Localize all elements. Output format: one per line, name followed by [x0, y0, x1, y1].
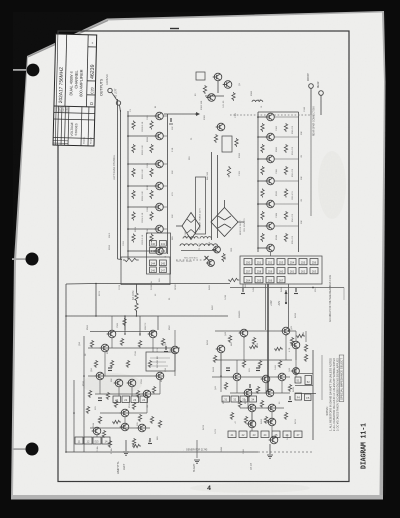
ground right amp	[267, 455, 273, 458]
wire CR2 left	[176, 225, 182, 227]
wire stage cross R6	[275, 225, 299, 227]
wire lamp h2	[88, 375, 164, 377]
node ladder-R 6	[257, 225, 259, 227]
bias box BR0	[222, 396, 230, 402]
title block cell line num	[87, 80, 95, 82]
resistor R63	[161, 338, 164, 346]
transistor Q32	[247, 420, 256, 428]
node bus right	[312, 287, 314, 289]
wire stage cross L2	[164, 135, 168, 137]
node ladder-L 5	[127, 206, 129, 208]
resistor R41	[228, 278, 239, 281]
transistor Q35	[107, 330, 116, 338]
terminal box TR14	[288, 268, 296, 274]
resistor R15	[150, 212, 153, 221]
transformer T1 winding 2	[183, 237, 198, 239]
junction dots extra	[267, 330, 269, 332]
wire bus drop x125	[124, 316, 126, 330]
transistor Q23	[291, 341, 300, 349]
wire right cluster mesh 4	[271, 412, 273, 422]
resistor R49	[224, 382, 227, 390]
wire terminal stub B	[120, 105, 121, 112]
node ladder-R 1	[257, 116, 259, 118]
inductor L3	[200, 244, 218, 246]
wire right vertical x322	[321, 355, 323, 400]
transistor Q47	[137, 424, 146, 432]
wire terminal FRONT drop	[310, 88, 312, 115]
resistor R30	[261, 144, 264, 153]
wire v pair a	[211, 152, 213, 240]
node ladder-L top	[195, 113, 197, 115]
resistor R67	[148, 360, 151, 368]
node ladder-L 2	[127, 135, 129, 137]
wire Q17 base	[258, 180, 266, 182]
transistor Q11	[216, 123, 225, 131]
emitter box ER5	[283, 431, 291, 438]
box K4 text a	[150, 357, 170, 359]
transistor Q44	[120, 409, 129, 417]
fuse box F5	[305, 394, 312, 401]
terminal box TR13	[277, 268, 285, 274]
resistor R96	[304, 344, 307, 352]
capacitor C72	[226, 367, 230, 369]
transistor Q46	[92, 427, 101, 435]
node ladder-L 6	[127, 228, 129, 230]
wire stage cross L1	[164, 115, 168, 117]
emitter box EL2	[93, 437, 101, 444]
wire right mesh extra 11	[236, 360, 238, 373]
wire left mesh extra 2	[152, 338, 154, 352]
terminal box TR20	[244, 277, 252, 283]
wire left mesh extra 3	[99, 380, 101, 394]
relay box RY2	[295, 377, 301, 383]
transistor Q16	[265, 155, 274, 163]
transistor Q30	[247, 404, 256, 412]
wire bus drop x96	[95, 284, 97, 317]
resistor R38	[284, 189, 287, 198]
node ladder-L 3	[127, 163, 129, 165]
page corner crease	[28, 21, 108, 58]
capacitor C60	[165, 346, 167, 350]
wire right mesh extra 8	[295, 331, 297, 341]
svg-text:4: 4	[207, 485, 211, 492]
wire right cluster mesh 2	[247, 397, 249, 408]
wire left mesh extra 10	[111, 316, 113, 330]
title lower table col 6	[87, 107, 90, 146]
terminal box TR16	[310, 268, 318, 274]
resistor R1	[132, 121, 135, 130]
terminal box TR15	[299, 268, 307, 274]
terminal 4 OHM	[116, 101, 120, 105]
node ladder-R 3	[257, 158, 259, 160]
wire right stub b	[295, 345, 297, 360]
resistor R71	[152, 386, 155, 394]
wire L1 bottom	[136, 311, 138, 316]
wire left cluster mesh 2	[118, 387, 120, 396]
transistor Q14	[265, 113, 274, 121]
resistor R12	[150, 144, 153, 153]
transistor Q28	[243, 389, 252, 397]
title block col line B	[86, 35, 88, 107]
bias box BL0	[113, 396, 121, 403]
ground centre	[194, 460, 200, 463]
inductor L1	[135, 292, 138, 302]
wire left cluster mesh 6	[174, 354, 176, 376]
resistor R97	[304, 354, 307, 362]
diode CR2a	[187, 219, 191, 223]
transistor Q29	[265, 389, 274, 397]
title lower table row 3	[53, 138, 94, 139]
capacitor C71	[98, 397, 102, 399]
wire lamp stub1	[124, 316, 126, 334]
wire strip feed	[118, 258, 123, 261]
resistor R69	[106, 392, 109, 400]
terminal box TR04	[288, 259, 296, 265]
diode CR2c	[187, 230, 191, 234]
terminal box TR06	[310, 259, 318, 265]
title lower table col 3	[63, 106, 66, 145]
resistor R65	[110, 360, 113, 368]
wire rear spkr vertical	[310, 115, 312, 216]
transistor Q6	[154, 225, 163, 233]
terminal REAR	[319, 91, 324, 96]
resistor R91	[158, 420, 161, 428]
wire Q2 base	[128, 135, 155, 137]
resistor R51	[288, 384, 291, 392]
wire left cluster mesh 3	[124, 417, 126, 427]
resistor R27	[227, 166, 230, 177]
terminal box TR23	[277, 277, 285, 283]
arrow mark a	[285, 290, 288, 294]
scan smudge right margin	[318, 151, 346, 219]
wire ladder-L top out	[164, 113, 196, 115]
wire right cluster mesh 6	[240, 407, 284, 409]
wire terminal REAR drop	[320, 95, 322, 115]
resistor R92	[86, 406, 89, 414]
big output box outline	[121, 257, 170, 285]
diode CR2d	[191, 230, 195, 234]
resistor R47	[258, 360, 261, 368]
terminal box TB11	[160, 248, 167, 254]
transistor Q40	[114, 379, 123, 387]
resistor R25	[214, 134, 217, 143]
resistor R29	[261, 123, 264, 132]
title block col line A	[65, 34, 67, 106]
node rail extra	[288, 330, 290, 332]
wire Q16 base	[258, 158, 266, 160]
resistor R52	[238, 400, 241, 408]
wire right stub a	[305, 331, 307, 342]
resistor R74	[98, 416, 101, 424]
transistor Q10	[206, 94, 215, 102]
wire right rail extra	[288, 284, 290, 331]
capacitor C73	[249, 384, 251, 388]
terminal box TB31	[160, 267, 167, 273]
terminal box TR11	[255, 268, 263, 274]
connector strip outline R	[240, 256, 322, 284]
resistor R72	[114, 400, 117, 408]
capacitor C51	[295, 288, 297, 292]
resistor R55	[284, 412, 287, 420]
wire Q1 base	[128, 115, 155, 117]
wire right cluster mesh 7	[295, 349, 297, 377]
resistor R16	[150, 234, 153, 243]
wire right mesh extra 9	[251, 412, 253, 431]
wire stage cross L5	[164, 206, 168, 208]
wire left mesh extra 5	[88, 347, 180, 349]
wire left cluster mesh 1	[104, 352, 106, 376]
title lower table row 2	[54, 119, 95, 120]
resistor R50	[256, 386, 259, 394]
emitter box EL0	[75, 437, 83, 444]
capacitor C63	[289, 396, 291, 400]
wire left cluster mesh 4	[95, 393, 160, 395]
wire bus bottom y452	[66, 451, 258, 453]
resistor R24	[232, 92, 235, 101]
resistor R34	[261, 233, 264, 242]
wire Q3 base	[128, 163, 155, 165]
resistor R45	[213, 355, 216, 363]
transistor Q19	[265, 222, 274, 230]
diode CR3	[205, 256, 209, 260]
inductor L7	[252, 100, 263, 102]
transistor Q17	[265, 177, 274, 185]
bias box BL1	[122, 396, 130, 403]
resistor R4	[132, 190, 135, 199]
wire ladder-R left rail	[257, 112, 259, 252]
transistor Q13	[212, 246, 220, 253]
resistor R57	[264, 416, 267, 424]
wire Q6 base	[128, 228, 155, 230]
resistor R53	[260, 400, 263, 408]
resistor R6	[132, 234, 135, 243]
transistor Q8	[213, 73, 222, 81]
wire left cluster mesh 5	[100, 412, 147, 414]
emitter box ER6	[294, 431, 302, 438]
wire bus left vertical	[65, 284, 67, 452]
terminal box TR12	[266, 268, 274, 274]
terminal box TR03	[277, 259, 285, 265]
wire left mesh extra 9	[96, 435, 98, 437]
punch hole 3	[12, 448, 28, 450]
diode CR1d	[225, 224, 232, 228]
resistor R21	[123, 258, 139, 261]
wire Q5 base	[128, 206, 155, 208]
scan smudge bottom	[190, 483, 310, 493]
terminal box TB00	[150, 241, 157, 247]
terminal box TR02	[266, 259, 274, 265]
terminal box TR21	[255, 277, 263, 283]
transformer T1 box	[196, 177, 206, 234]
emitter box EL3	[102, 437, 110, 444]
resistor R35	[284, 123, 287, 132]
box K4 text c	[150, 365, 168, 367]
bias box BL3	[140, 396, 148, 403]
terminal box TR10	[244, 268, 252, 274]
resistor R60	[90, 340, 93, 348]
transistor Q7	[154, 247, 163, 255]
resistor R98	[296, 334, 305, 337]
wire left mesh extra 8	[131, 387, 133, 396]
resistor R36	[284, 144, 287, 153]
wire Q18 base	[258, 203, 266, 205]
transistor Q45	[120, 423, 129, 431]
wire right cluster mesh 1	[236, 381, 238, 393]
resistor R90	[150, 416, 153, 424]
wire Q4 base	[128, 185, 155, 187]
wire right vertical x313	[312, 350, 314, 440]
box K4 text b	[150, 361, 166, 363]
bridge rectifier CR2	[182, 213, 200, 240]
wire right mesh extra 6	[215, 359, 292, 361]
transistor Q43	[142, 390, 151, 398]
resistor R59	[274, 347, 283, 350]
wire right mesh extra 5	[281, 381, 283, 393]
terminal box TB21	[160, 260, 167, 266]
title block divider upper/lower	[54, 106, 95, 107]
wire ramp h3	[220, 353, 222, 392]
transformer T1 secondary	[181, 250, 216, 252]
wire stage cross R2	[275, 136, 299, 138]
transistor Q41	[127, 379, 136, 387]
wire lamp stub2	[139, 316, 141, 336]
emitter box ER3	[261, 431, 269, 438]
diode CR1a	[218, 216, 225, 220]
terminal box TR01	[255, 259, 263, 265]
emitter box ER2	[250, 431, 258, 438]
component box K2	[222, 136, 232, 152]
wire ramp h1	[215, 330, 296, 332]
resistor R11	[150, 121, 153, 130]
title block group	[53, 34, 97, 146]
relay box RY1	[305, 376, 312, 385]
wire terminal stub A	[112, 92, 118, 101]
terminal FRONT	[309, 84, 314, 89]
wire top cluster a	[205, 95, 224, 97]
transistor Q34	[269, 436, 278, 444]
resistor R46	[242, 360, 245, 368]
resistor R42	[228, 335, 231, 343]
wire stage cross R3	[275, 158, 299, 160]
title lower table col 4	[67, 106, 70, 145]
wire right mesh extra 4	[265, 383, 267, 393]
wire stage cross L4	[164, 185, 168, 187]
transistor Q24	[216, 345, 225, 353]
wire lamp h1	[90, 331, 157, 333]
resistor R94	[112, 420, 121, 423]
emitter box EL1	[84, 437, 92, 444]
wire centre ground stub	[196, 440, 198, 458]
node ladder-L 4	[127, 185, 129, 187]
wire left mesh extra 11	[174, 330, 176, 346]
transistor Q18	[265, 200, 274, 208]
wire Q14 base	[258, 116, 266, 118]
node ladder-R 5	[257, 203, 259, 205]
resistor R70	[136, 390, 139, 398]
wire mid horizontal y316	[66, 315, 228, 317]
resistor R23	[203, 85, 206, 94]
wire Q15 base	[258, 136, 266, 138]
transistor Q2	[154, 132, 163, 140]
resistor R68	[88, 390, 91, 398]
wire left rail A	[117, 99, 119, 259]
ground left amp	[123, 452, 129, 455]
title block cell line rev	[88, 46, 96, 48]
wire right h 393	[295, 393, 316, 395]
punch hole 2	[12, 258, 28, 260]
bias box BL2	[131, 396, 139, 403]
wire rect row dashes	[176, 259, 206, 261]
wire stage cross L3	[164, 163, 168, 165]
transistor Q37	[100, 344, 109, 352]
wire left rail B	[120, 110, 122, 259]
resistor R48	[278, 360, 281, 368]
resistor R39	[284, 211, 287, 220]
notes box	[339, 355, 344, 402]
transistor Q3	[154, 160, 163, 168]
punch hole 1	[13, 69, 29, 71]
wire right h 373	[295, 373, 313, 375]
node ladder-R 7	[257, 247, 259, 249]
wire dashed interconnect	[230, 114, 311, 116]
bridge rectifier CR1	[211, 208, 238, 237]
resistor R28	[222, 253, 225, 262]
title lower table col 5	[80, 107, 83, 146]
wire stage cross R4	[275, 180, 299, 182]
wire bus horizontal right	[230, 287, 344, 289]
resistor R76	[108, 440, 111, 448]
title lower table col 1	[56, 106, 59, 145]
terminal GROUND	[108, 88, 112, 92]
wire Q20 base	[258, 247, 266, 249]
arrow mark b	[196, 112, 200, 116]
title lower extra row a	[53, 140, 68, 142]
resistor R33	[261, 211, 264, 220]
transistor Q38	[170, 346, 179, 354]
transistor Q42	[155, 372, 164, 380]
connector strip outline L	[147, 233, 171, 274]
wire bus horizontal y283	[96, 283, 230, 285]
resistor R43	[252, 337, 255, 345]
transistor Q9	[223, 81, 232, 89]
wire Q19 base	[258, 225, 266, 227]
wire arrow 42	[285, 290, 287, 303]
resistor R73	[132, 402, 135, 410]
bias box BR1	[231, 396, 239, 402]
node ladder-L 1	[127, 115, 129, 117]
scan smudge left amp	[82, 373, 142, 395]
resistor R3	[132, 168, 135, 177]
wire power rail par	[265, 284, 267, 330]
wire left mesh extra 4	[159, 380, 161, 394]
title lower extra row b	[53, 142, 68, 144]
bias box BR2	[240, 396, 248, 402]
schematic border frame	[58, 31, 349, 482]
terminal box TB01	[160, 241, 167, 247]
inductor L2	[180, 244, 198, 246]
node ladder-R 2	[257, 136, 259, 138]
wire right cluster mesh 3	[251, 412, 253, 424]
terminal box TR22	[266, 277, 274, 283]
terminal box TR00	[244, 259, 252, 265]
node bus a	[95, 283, 97, 285]
wire ground drop R	[269, 444, 271, 454]
wire top cluster b	[217, 81, 219, 93]
transistor Q33	[267, 418, 276, 426]
resistor R5	[132, 212, 135, 221]
fuse box F4	[295, 393, 302, 400]
emitter box ER0	[228, 431, 236, 438]
